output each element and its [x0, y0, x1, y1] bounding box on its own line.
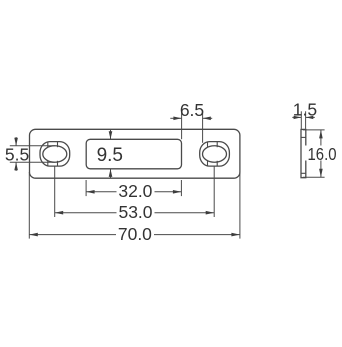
arrowhead 6.5 right — [203, 117, 211, 121]
arrowhead 1.5 right — [306, 116, 314, 119]
arrowhead 16.0 bottom — [319, 169, 323, 178]
dim 5.5 extension lines — [10, 145, 55, 147]
text mask 70.0 — [116, 228, 154, 242]
arrowhead 32.0 right — [173, 190, 182, 194]
svg-text:53.0: 53.0 — [118, 202, 152, 222]
plate front view outline — [30, 129, 240, 178]
text mask 53.0 — [117, 206, 155, 220]
dim 16.0 dimension line — [320, 130, 322, 177]
dim 32.0 extension lines — [85, 180, 87, 196]
svg-text:70.0: 70.0 — [118, 224, 152, 244]
arrowhead 1.5 left — [294, 116, 302, 119]
left slot countersink ticks — [48, 142, 58, 166]
text mask 16.0 — [305, 146, 338, 161]
dim 70.0 dimension line — [29, 234, 240, 236]
arrowhead 9.5 top — [109, 131, 113, 139]
arrowhead 53.0 left — [55, 211, 64, 215]
side view edge ticks — [301, 137, 306, 173]
right slot inner outline — [203, 146, 227, 163]
dim 53.0 extension lines — [54, 166, 56, 217]
arrowhead 9.5 bottom — [109, 169, 113, 177]
svg-text:16.0: 16.0 — [308, 144, 337, 164]
dim 6.5 arrow tails — [170, 117, 181, 119]
dim 1.5 arrow tails — [292, 116, 301, 118]
svg-text:1.5: 1.5 — [293, 100, 317, 120]
arrowhead 70.0 left — [29, 233, 38, 237]
arrowhead 70.0 right — [231, 233, 240, 237]
side view plate section — [301, 129, 306, 177]
svg-text:6.5: 6.5 — [180, 100, 204, 120]
dim 16.0 extension lines — [303, 129, 325, 131]
dim 70.0 extension lines — [28, 172, 30, 239]
svg-text:32.0: 32.0 — [118, 181, 152, 201]
dim 5.5 arrow tails — [15, 137, 17, 146]
dim 32.0 dimension line — [86, 191, 181, 193]
left slot outer outline — [40, 142, 70, 167]
dim 9.5 arrow tails — [110, 129, 112, 139]
dim 53.0 dimension line — [55, 212, 215, 214]
arrowhead 16.0 top — [319, 130, 323, 139]
arrowhead 5.5 bottom — [14, 162, 18, 170]
arrowhead 5.5 top — [14, 138, 18, 146]
svg-text:9.5: 9.5 — [97, 145, 123, 166]
text mask 32.0 — [117, 185, 155, 199]
arrowhead 32.0 left — [86, 190, 95, 194]
left slot inner outline — [43, 146, 67, 163]
dim 1.5 extension lines — [300, 111, 302, 129]
svg-text:5.5: 5.5 — [5, 144, 29, 164]
dim 6.5 extension lines — [181, 112, 183, 139]
central rectangular hole — [86, 139, 181, 169]
arrowhead 53.0 right — [206, 211, 215, 215]
right slot outer outline — [200, 142, 230, 167]
right slot countersink ticks — [208, 142, 218, 166]
arrowhead 6.5 left — [173, 117, 181, 121]
